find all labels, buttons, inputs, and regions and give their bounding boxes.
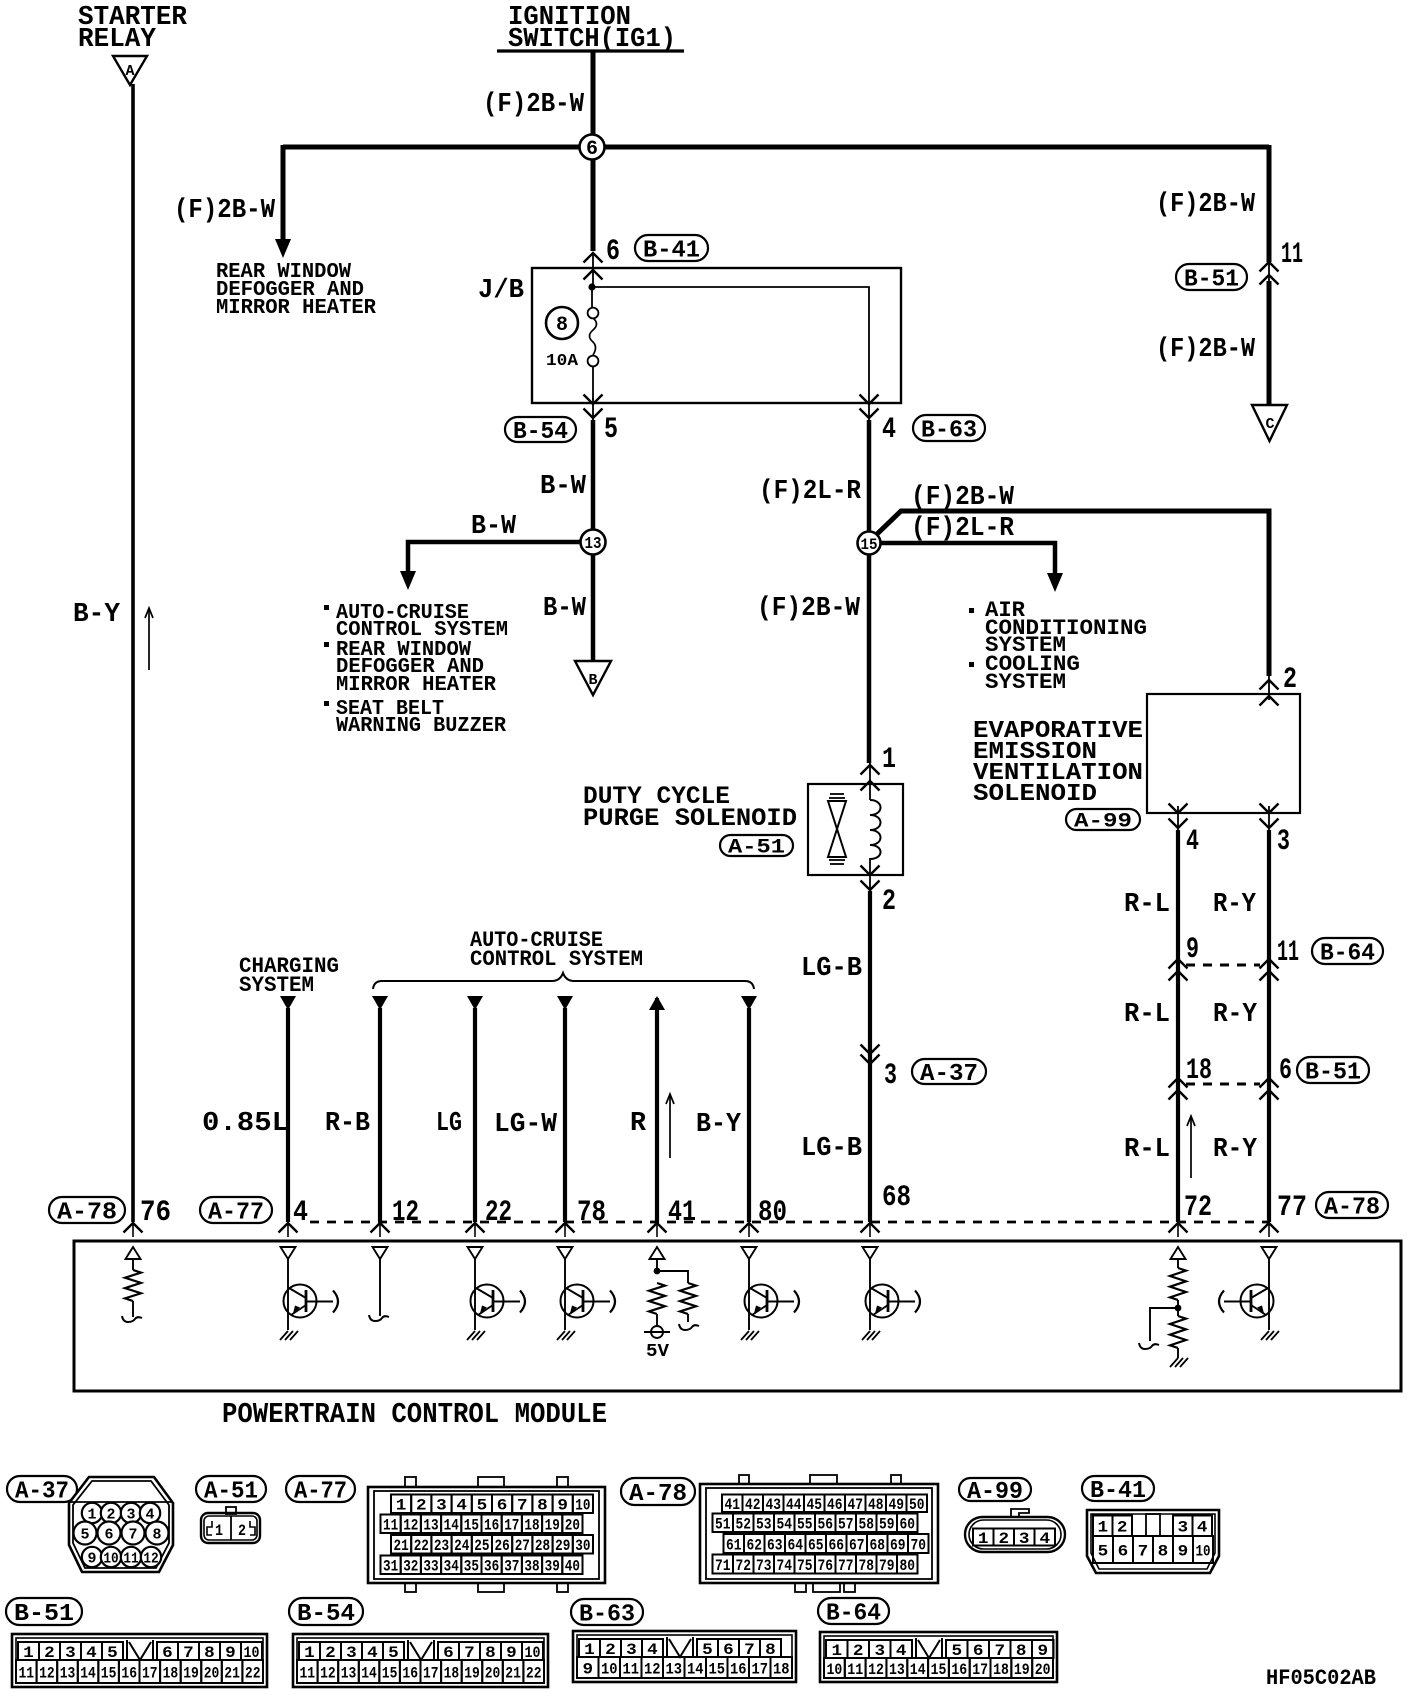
connector B-51 chevrons right [1260, 1078, 1279, 1088]
wire end chevron at PCM pin 68 [861, 1223, 880, 1233]
resistor at pin 76 [132, 1259, 134, 1270]
svg-text:(F)2B-W: (F)2B-W [483, 90, 585, 120]
wire fuse to J/B bottom [592, 366, 594, 400]
svg-text:13: 13 [341, 1664, 357, 1682]
svg-text:11: 11 [383, 1517, 398, 1535]
PCM pin 12 input triangle [373, 1247, 388, 1259]
wire LG-W to PCM pin 78 [557, 996, 573, 1010]
svg-text:12: 12 [644, 1660, 661, 1678]
transistor Q pin 22 [471, 1285, 504, 1318]
svg-text:LG: LG [436, 1109, 462, 1139]
wire end chevron at PCM pin 80 [740, 1223, 759, 1233]
svg-text:40: 40 [565, 1558, 580, 1576]
connector B-54 face view [293, 1634, 548, 1687]
svg-text:32: 32 [403, 1558, 418, 1576]
svg-text:R-Y: R-Y [1213, 1135, 1258, 1165]
svg-text:20: 20 [485, 1664, 501, 1682]
svg-text:HF05C02AB: HF05C02AB [1266, 1666, 1376, 1691]
chevrons evap solenoid pin 3 out [1260, 804, 1279, 814]
svg-text:A-37: A-37 [15, 1479, 69, 1506]
svg-text:6: 6 [1118, 1542, 1129, 1560]
svg-text:R-Y: R-Y [1213, 890, 1257, 920]
svg-text:8: 8 [537, 1497, 548, 1515]
svg-text:4: 4 [882, 413, 896, 447]
svg-text:60: 60 [899, 1516, 915, 1534]
junction node 13 [581, 530, 606, 555]
ignition switch terminal bar [497, 49, 684, 52]
svg-text:8: 8 [153, 1526, 162, 1543]
oval label A-77 (pin 4) [200, 1197, 272, 1223]
resistor divider upper pin 72 [1177, 1259, 1179, 1268]
svg-text:2: 2 [999, 1530, 1010, 1548]
svg-text:3: 3 [1178, 1519, 1189, 1537]
svg-text:(F)2B-W: (F)2B-W [757, 594, 861, 624]
svg-text:SYSTEM: SYSTEM [239, 973, 314, 998]
svg-text:1: 1 [396, 1497, 407, 1515]
svg-text:16: 16 [951, 1661, 967, 1679]
svg-text:2: 2 [416, 1497, 427, 1515]
chevrons pin 4 B-63 out of J/B [860, 395, 879, 405]
connector A-77 face view [368, 1487, 605, 1583]
svg-text:6: 6 [606, 235, 620, 269]
svg-text:B-54: B-54 [297, 1601, 355, 1628]
connector B-64 chevrons left [1169, 959, 1188, 969]
connector B-51 pass-through chevrons (right) [1260, 262, 1279, 272]
svg-text:2: 2 [238, 1522, 246, 1540]
component duty cycle purge solenoid A-51 box [808, 784, 903, 875]
wire branch to rear window defogger [281, 145, 286, 240]
connector A-78 face view [700, 1484, 938, 1583]
svg-text:13: 13 [585, 535, 602, 554]
svg-text:5: 5 [1098, 1542, 1109, 1560]
svg-text:A-37: A-37 [920, 1061, 978, 1088]
svg-text:18: 18 [163, 1664, 179, 1682]
svg-text:(F)2B-W: (F)2B-W [911, 483, 1015, 513]
svg-text:14: 14 [80, 1664, 96, 1682]
svg-text:5V: 5V [646, 1342, 669, 1362]
svg-text:WARNING BUZZER: WARNING BUZZER [336, 714, 506, 738]
svg-text:64: 64 [787, 1536, 803, 1554]
fuse 8 top terminal [588, 308, 599, 319]
svg-text:0.85L: 0.85L [202, 1109, 289, 1139]
arrow to rear window defogger [275, 239, 291, 258]
svg-text:B-41: B-41 [1090, 1478, 1146, 1505]
destination list: auto-cruise, defogger, seat belt buzzer [324, 605, 329, 610]
svg-text:11: 11 [847, 1661, 863, 1679]
svg-text:A-51: A-51 [728, 837, 785, 860]
svg-text:65: 65 [808, 1536, 824, 1554]
junction block J/B box [532, 268, 901, 403]
PCM pin 72 input triangle [1171, 1247, 1186, 1259]
svg-text:41: 41 [724, 1496, 740, 1514]
fuse number circle 8 [546, 307, 578, 339]
terminator hook pin 41 [679, 1324, 699, 1330]
wire end chevron at PCM pin 41 [648, 1223, 667, 1233]
svg-text:11: 11 [300, 1664, 316, 1682]
connector B-41 face view [1087, 1510, 1219, 1573]
svg-text:2: 2 [882, 885, 896, 919]
oval label A-78 (pin 76) [49, 1197, 125, 1223]
svg-text:1: 1 [882, 743, 896, 777]
svg-text:A-99: A-99 [967, 1479, 1023, 1506]
svg-text:13: 13 [423, 1517, 438, 1535]
svg-text:A-51: A-51 [204, 1479, 258, 1506]
svg-text:3: 3 [1019, 1530, 1030, 1548]
svg-text:45: 45 [806, 1496, 822, 1514]
svg-text:11: 11 [1281, 238, 1303, 272]
svg-text:9: 9 [88, 1550, 97, 1567]
svg-text:13: 13 [666, 1660, 683, 1678]
svg-text:LG-W: LG-W [494, 1110, 558, 1140]
svg-text:34: 34 [444, 1558, 460, 1576]
svg-text:6: 6 [105, 1526, 114, 1543]
svg-text:5: 5 [477, 1497, 488, 1515]
svg-text:15: 15 [709, 1660, 726, 1678]
resistor R2 pin 41 [680, 1283, 696, 1314]
PCM pin 22 output triangle [468, 1247, 483, 1259]
svg-text:17: 17 [504, 1517, 519, 1535]
chevrons into purge solenoid [861, 765, 880, 775]
svg-text:58: 58 [858, 1516, 874, 1534]
svg-text:3: 3 [884, 1059, 897, 1093]
svg-text:A: A [125, 63, 134, 80]
svg-text:68: 68 [882, 1181, 911, 1215]
svg-text:J/B: J/B [478, 276, 524, 306]
svg-text:8: 8 [556, 314, 568, 337]
junction node 15 [858, 532, 881, 555]
component evaporative emission ventilation solenoid box [1147, 694, 1300, 813]
svg-text:20: 20 [1035, 1661, 1051, 1679]
svg-text:12: 12 [320, 1664, 336, 1682]
wire (F)2L-R from J/B to node 15 [867, 420, 872, 543]
oval label A-99 (bottom) [959, 1478, 1031, 1501]
svg-text:12: 12 [392, 1196, 419, 1230]
pin 41 branch wire [657, 1271, 688, 1283]
svg-text:B-W: B-W [471, 512, 517, 542]
svg-text:56: 56 [817, 1516, 833, 1534]
PCM pin 41 input triangle [650, 1247, 665, 1259]
wire LG to PCM pin 22 [467, 996, 483, 1010]
svg-text:SYSTEM: SYSTEM [985, 670, 1066, 695]
connector A-37 face view [69, 1477, 173, 1572]
svg-text:6: 6 [586, 138, 598, 161]
svg-text:21: 21 [505, 1664, 521, 1682]
svg-text:10: 10 [827, 1661, 843, 1679]
svg-text:14: 14 [361, 1664, 377, 1682]
oval label A-78 (right) [1316, 1192, 1388, 1218]
svg-text:35: 35 [464, 1558, 479, 1576]
wire (F)2B-W from ignition switch to node 6 [591, 52, 596, 147]
connector A-37 pass-through chevrons [861, 1045, 880, 1055]
oval label B-63 (bottom) [571, 1599, 643, 1625]
svg-text:7: 7 [1138, 1542, 1149, 1560]
svg-text:A-77: A-77 [294, 1479, 347, 1506]
svg-text:B-64: B-64 [1320, 941, 1375, 968]
svg-text:71: 71 [715, 1557, 731, 1575]
connector triangle A (starter relay) [113, 56, 147, 85]
svg-text:77: 77 [1277, 1191, 1307, 1225]
svg-text:44: 44 [786, 1496, 802, 1514]
wire R-Y from evap pin 3 to PCM pin 77 [1267, 830, 1271, 1222]
wire (F)2B-W diagonal from node 15 [876, 511, 1269, 676]
svg-text:19: 19 [183, 1664, 199, 1682]
wire end chevron at PCM pin 12 [371, 1223, 390, 1233]
svg-text:17: 17 [423, 1664, 439, 1682]
svg-text:54: 54 [776, 1516, 792, 1534]
svg-text:6: 6 [1279, 1054, 1292, 1088]
svg-text:77: 77 [838, 1557, 854, 1575]
wire 2B-W right branch down [1267, 145, 1272, 262]
svg-text:23: 23 [434, 1537, 449, 1555]
svg-text:8: 8 [1158, 1542, 1169, 1560]
svg-text:59: 59 [879, 1516, 895, 1534]
svg-text:A-99: A-99 [1074, 811, 1132, 834]
svg-text:79: 79 [879, 1557, 895, 1575]
svg-text:4: 4 [1186, 825, 1199, 859]
svg-text:20: 20 [565, 1517, 580, 1535]
svg-text:(F)2B-W: (F)2B-W [174, 196, 276, 226]
oval label B-63 [913, 415, 985, 441]
svg-text:29: 29 [555, 1537, 570, 1555]
svg-text:R-Y: R-Y [1213, 1000, 1258, 1030]
wire R from PCM pin 41 [649, 996, 665, 1010]
PCM pin 78 output triangle [558, 1247, 573, 1259]
wire main 2B-W bus [283, 145, 1269, 150]
purge solenoid valve symbol [830, 793, 844, 795]
svg-text:B-Y: B-Y [73, 600, 121, 630]
wire (F)2L-R branch right from node 15 [880, 543, 1055, 574]
svg-text:14: 14 [910, 1661, 926, 1679]
svg-text:13: 13 [889, 1661, 905, 1679]
svg-text:21: 21 [394, 1537, 409, 1555]
svg-text:B-51: B-51 [1305, 1060, 1361, 1087]
oval label B-41 [635, 235, 708, 261]
arrow to auto-cruise etc [400, 571, 416, 590]
connector B-51 chevrons left [1169, 1078, 1188, 1088]
svg-text:76: 76 [817, 1557, 833, 1575]
direction arrow (up) on B-Y wire [148, 608, 150, 670]
transistor Q pin 68 [866, 1285, 899, 1318]
svg-text:72: 72 [735, 1557, 751, 1575]
PCM pin 4 output triangle [281, 1247, 296, 1259]
svg-text:R-L: R-L [1124, 890, 1170, 920]
svg-text:B: B [588, 672, 597, 689]
wire 2B-W to triangle C [1267, 281, 1272, 405]
svg-text:36: 36 [484, 1558, 499, 1576]
PCM pin 68 output triangle [863, 1247, 878, 1259]
wire B-W branch left from node 13 [408, 542, 581, 572]
svg-text:B-51: B-51 [1184, 267, 1239, 294]
svg-text:62: 62 [746, 1536, 762, 1554]
svg-text:75: 75 [797, 1557, 813, 1575]
svg-text:18: 18 [773, 1660, 790, 1678]
svg-text:11: 11 [19, 1664, 35, 1682]
oval label B-54 [505, 417, 576, 442]
fuse 8 bottom terminal [588, 356, 599, 367]
svg-text:4: 4 [456, 1497, 467, 1515]
svg-text:68: 68 [869, 1536, 885, 1554]
svg-text:16: 16 [730, 1660, 747, 1678]
svg-text:15: 15 [101, 1664, 117, 1682]
svg-text:5: 5 [81, 1526, 90, 1543]
PCM pin 77 output triangle [1262, 1247, 1277, 1259]
svg-text:(F)2B-W: (F)2B-W [1156, 190, 1256, 220]
svg-text:47: 47 [847, 1496, 863, 1514]
node dot pin 72 [1175, 1305, 1182, 1312]
purge solenoid coil [870, 800, 881, 859]
svg-text:B-63: B-63 [921, 418, 977, 445]
svg-text:B-W: B-W [540, 472, 587, 502]
svg-text:1: 1 [1098, 1519, 1109, 1537]
powertrain control module box [74, 1241, 1401, 1391]
connector B-51 face view [12, 1634, 267, 1687]
svg-text:7: 7 [129, 1526, 138, 1543]
svg-text:11: 11 [123, 1550, 138, 1567]
svg-text:9: 9 [557, 1497, 568, 1515]
wire B-W from J/B to node 13 [591, 420, 596, 542]
connector triangle C [1252, 405, 1287, 441]
svg-text:66: 66 [828, 1536, 844, 1554]
oval label A-78 (bottom) [621, 1478, 695, 1505]
svg-text:22: 22 [526, 1664, 542, 1682]
svg-text:55: 55 [797, 1516, 813, 1534]
direction arrow (up) on R-L wire [1190, 1116, 1192, 1178]
dashed PCM connector line [310, 1221, 1269, 1224]
svg-text:73: 73 [756, 1557, 772, 1575]
svg-text:48: 48 [868, 1496, 884, 1514]
svg-text:A-77: A-77 [208, 1200, 264, 1227]
svg-text:12: 12 [143, 1550, 158, 1567]
wire end chevron at PCM pin 72 [1169, 1223, 1188, 1233]
connector A-99 face view [965, 1517, 1065, 1552]
svg-text:14: 14 [444, 1517, 460, 1535]
oval label B-64 (bottom) [818, 1598, 889, 1624]
svg-text:78: 78 [577, 1196, 606, 1230]
svg-text:69: 69 [890, 1536, 906, 1554]
svg-text:3: 3 [436, 1497, 447, 1515]
svg-text:24: 24 [454, 1537, 470, 1555]
svg-text:15: 15 [382, 1664, 398, 1682]
svg-text:41: 41 [668, 1196, 696, 1230]
svg-text:51: 51 [715, 1516, 731, 1534]
svg-text:12: 12 [39, 1664, 55, 1682]
svg-text:B-W: B-W [543, 594, 587, 624]
connector triangle B [575, 661, 611, 695]
svg-text:11: 11 [623, 1660, 640, 1678]
oval label B-51 (bottom) [6, 1598, 82, 1625]
svg-text:27: 27 [515, 1537, 530, 1555]
dashed connector line B-64 [1186, 964, 1260, 967]
wire R-L from evap pin 4 to PCM pin 72 [1176, 830, 1180, 1222]
wire LG-B from purge solenoid to PCM pin 68 [868, 891, 872, 1222]
arrow to air conditioning [1047, 573, 1063, 592]
svg-text:10: 10 [601, 1660, 618, 1678]
svg-text:9: 9 [1186, 933, 1199, 967]
svg-text:72: 72 [1184, 1191, 1212, 1225]
svg-text:LG-B: LG-B [801, 954, 862, 984]
svg-text:RELAY: RELAY [78, 25, 157, 55]
5V supply symbol [651, 1326, 663, 1338]
svg-text:21: 21 [224, 1664, 240, 1682]
svg-text:80: 80 [758, 1196, 787, 1230]
svg-text:26: 26 [495, 1537, 510, 1555]
svg-text:PURGE SOLENOID: PURGE SOLENOID [583, 804, 797, 833]
svg-text:7: 7 [517, 1497, 528, 1515]
svg-text:9: 9 [583, 1660, 594, 1678]
svg-text:2: 2 [1117, 1519, 1128, 1537]
wire 0.85L from charging system to PCM pin 4 [280, 996, 296, 1010]
svg-text:3: 3 [1277, 825, 1290, 859]
svg-text:17: 17 [142, 1664, 158, 1682]
svg-text:(F)2L-R: (F)2L-R [759, 477, 862, 507]
brace over auto-cruise wires [373, 973, 754, 989]
pin 41 internal node dot [656, 1259, 658, 1271]
oval label B-64 (mid) [1312, 938, 1383, 964]
svg-text:13: 13 [60, 1664, 76, 1682]
svg-text:76: 76 [140, 1196, 171, 1230]
oval label A-51 (bottom) [196, 1476, 266, 1502]
svg-text:49: 49 [888, 1496, 904, 1514]
branch wire pin 72 [1150, 1308, 1178, 1341]
svg-text:19: 19 [464, 1664, 480, 1682]
wire end chevron at PCM pin 76 [124, 1223, 143, 1233]
oval label A-99 [1066, 809, 1140, 830]
svg-text:A-78: A-78 [629, 1481, 687, 1508]
svg-text:B-64: B-64 [826, 1601, 881, 1628]
wire B-Y to PCM pin 80 [741, 996, 757, 1010]
wire R-B to PCM pin 12 [372, 996, 388, 1010]
svg-text:80: 80 [899, 1557, 915, 1575]
svg-text:B-51: B-51 [14, 1601, 74, 1628]
oval label A-51 [720, 835, 793, 856]
svg-text:1: 1 [215, 1522, 223, 1540]
terminator hook pin 12 [369, 1315, 389, 1321]
chevrons out of purge solenoid [861, 866, 880, 876]
svg-text:(F)2B-W: (F)2B-W [1156, 335, 1256, 365]
pull-up resistor R1 pin 41 [649, 1283, 665, 1314]
svg-text:22: 22 [245, 1664, 261, 1682]
svg-text:12: 12 [868, 1661, 884, 1679]
fuse 8 element [590, 318, 597, 355]
svg-text:70: 70 [910, 1536, 926, 1554]
wire end chevron at PCM pin 78 [556, 1223, 575, 1233]
connector B-64 chevrons right [1260, 959, 1279, 969]
svg-text:5: 5 [604, 413, 618, 447]
svg-text:A-78: A-78 [1324, 1195, 1380, 1222]
svg-text:78: 78 [858, 1557, 874, 1575]
wire 2B-W from node 6 to J/B [591, 159, 596, 251]
svg-text:17: 17 [972, 1661, 988, 1679]
svg-text:22: 22 [414, 1537, 429, 1555]
svg-text:63: 63 [767, 1536, 783, 1554]
svg-text:38: 38 [524, 1558, 539, 1576]
svg-text:4: 4 [1197, 1519, 1208, 1537]
svg-text:4: 4 [293, 1196, 308, 1230]
svg-text:CONTROL SYSTEM: CONTROL SYSTEM [470, 947, 643, 972]
chevrons pin 6 B-41 into J/B [584, 253, 603, 263]
svg-text:22: 22 [485, 1196, 512, 1230]
svg-text:POWERTRAIN CONTROL MODULE: POWERTRAIN CONTROL MODULE [222, 1398, 607, 1431]
svg-text:B-Y: B-Y [696, 1110, 742, 1140]
svg-text:53: 53 [756, 1516, 772, 1534]
svg-text:46: 46 [827, 1496, 843, 1514]
terminator hook pin 76 [122, 1316, 142, 1322]
svg-text:18: 18 [993, 1661, 1009, 1679]
svg-text:15: 15 [464, 1517, 479, 1535]
junction node 6 [580, 135, 605, 160]
chevrons pin 5 B-54 out of J/B [584, 395, 603, 405]
svg-text:31: 31 [383, 1558, 398, 1576]
